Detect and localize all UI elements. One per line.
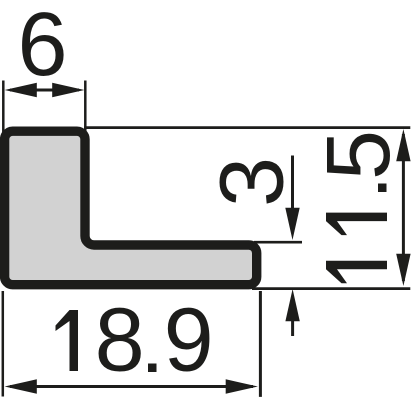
dimension 3: lower arrow pointing up — [285, 289, 299, 336]
dimension 11.5: value label (rotated) — [309, 130, 409, 283]
dimension 18.9: dimension line with arrows — [5, 379, 258, 393]
svg-text:9: 9 — [164, 291, 214, 391]
svg-text:3: 3 — [203, 157, 303, 207]
svg-text:6: 6 — [17, 0, 67, 95]
dimension 11.5: extension line bottom (shared with dimension 3) — [252, 287, 410, 290]
svg-text:8: 8 — [95, 291, 145, 391]
dimension 6: extension line left — [2, 81, 5, 134]
dimension 18.9: extension line left — [2, 291, 5, 397]
dimension 11.5: vertical dimension line with arrows — [396, 129, 410, 286]
dimension 6: dimension line with arrows — [5, 83, 85, 97]
dimension 18.9: value label — [56, 291, 214, 391]
dimension 6: value label — [17, 0, 67, 95]
dimension 18.9: extension line right — [259, 291, 262, 397]
dimension 11.5: extension line top — [84, 126, 410, 129]
svg-text:5: 5 — [309, 130, 409, 180]
L-profile cross-section (grey fill, thick outline) — [5, 131, 257, 285]
dimension 3: extension line top (from leg upper face) — [254, 241, 302, 244]
dimension 3: upper arrow pointing down — [285, 156, 299, 241]
dimension 3: value label (rotated) — [203, 157, 303, 207]
dimension 6: extension line right — [84, 81, 87, 139]
